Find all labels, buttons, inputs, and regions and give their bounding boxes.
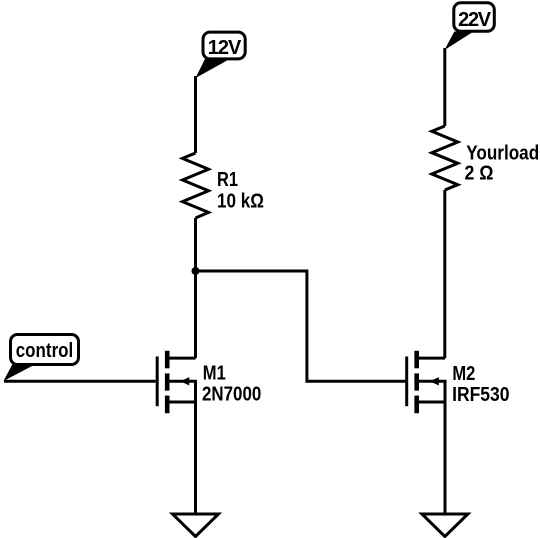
svg-text:IRF530: IRF530 — [452, 384, 509, 406]
label M1 2N7000 — [202, 363, 261, 406]
wire: 12V to R1 — [194, 76, 197, 153]
ground (left) — [173, 514, 219, 537]
resistor R1 — [183, 153, 209, 218]
input flag control — [4, 335, 79, 382]
svg-text:Yourload: Yourload — [466, 142, 539, 164]
svg-text:control: control — [16, 340, 74, 362]
label M2 IRF530 — [452, 363, 509, 406]
transistor M1 — [156, 351, 196, 413]
label R1 10 kOhm — [217, 169, 264, 213]
node junction — [192, 267, 200, 275]
power flag 12V — [196, 32, 246, 78]
wire: M1 source to ground — [194, 402, 197, 514]
svg-text:M1: M1 — [203, 363, 226, 385]
svg-text:12V: 12V — [208, 37, 242, 59]
resistor Yourload — [432, 126, 458, 190]
wire: M2 source to ground — [444, 402, 447, 514]
transistor M2 — [405, 351, 445, 413]
wire: load to M2 drain — [443, 190, 446, 358]
svg-text:M2: M2 — [452, 363, 475, 385]
ground (right) — [422, 514, 468, 537]
wire: node to M1 drain — [194, 271, 197, 358]
power flag 22V — [445, 3, 495, 50]
svg-text:2N7000: 2N7000 — [202, 383, 261, 405]
svg-text:2 Ω: 2 Ω — [465, 162, 494, 184]
svg-text:10 kΩ: 10 kΩ — [217, 191, 264, 213]
wire: node to M2 gate — [196, 271, 406, 381]
svg-text:22V: 22V — [458, 9, 492, 31]
wire: R1 to node — [194, 218, 197, 271]
wire: control to M1 gate — [4, 380, 156, 383]
svg-text:R1: R1 — [217, 169, 238, 191]
label Yourload 2 Ohm — [465, 142, 540, 184]
wire: 22V to load resistor — [443, 48, 446, 126]
